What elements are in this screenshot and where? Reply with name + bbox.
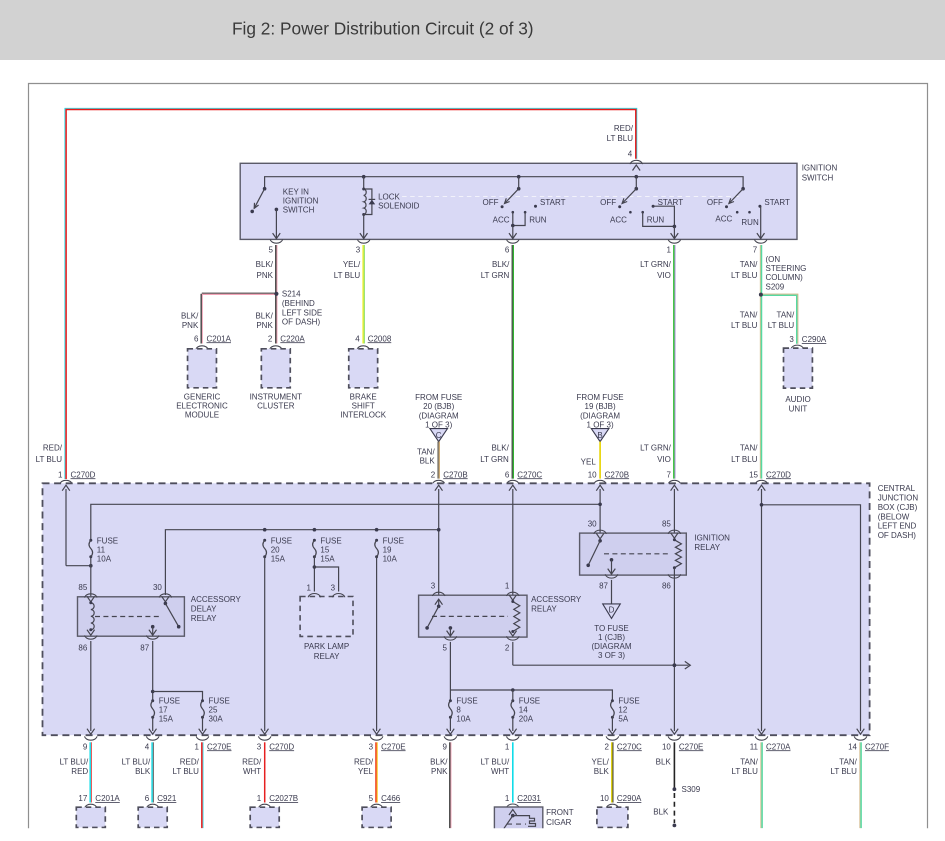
svg-text:S309: S309 [682,785,701,794]
svg-text:LT BLU: LT BLU [334,271,361,280]
svg-text:C2027B: C2027B [269,794,298,803]
svg-text:C466: C466 [381,794,401,803]
svg-text:(DIAGRAM: (DIAGRAM [419,411,459,420]
svg-text:7: 7 [666,470,671,479]
svg-text:7: 7 [753,246,758,255]
svg-text:2: 2 [268,334,273,343]
svg-text:3: 3 [369,742,374,751]
svg-text:15A: 15A [159,715,174,724]
svg-text:C270D: C270D [766,470,791,479]
svg-text:FUSE: FUSE [456,697,477,706]
svg-text:START: START [540,198,566,207]
svg-text:RED/: RED/ [614,124,634,133]
svg-text:IGNITION: IGNITION [802,163,838,172]
svg-text:ELECTRONIC: ELECTRONIC [176,401,228,410]
svg-text:3: 3 [257,742,262,751]
svg-text:3: 3 [331,583,336,592]
svg-text:1: 1 [666,246,671,255]
svg-text:BLK: BLK [653,808,669,817]
svg-text:12: 12 [618,706,627,715]
svg-text:IGNITION: IGNITION [694,533,730,542]
svg-text:4: 4 [145,742,150,751]
svg-text:1: 1 [306,583,311,592]
svg-text:17: 17 [78,794,87,803]
svg-text:FUSE: FUSE [519,697,540,706]
svg-text:5: 5 [369,794,374,803]
svg-text:FROM FUSE: FROM FUSE [415,393,462,402]
svg-text:3: 3 [789,335,794,344]
svg-text:TAN/: TAN/ [740,260,758,269]
svg-text:LT BLU/: LT BLU/ [481,757,510,766]
svg-text:SWITCH: SWITCH [283,205,315,214]
svg-text:30: 30 [153,583,162,592]
svg-text:5: 5 [442,643,447,652]
svg-text:14: 14 [848,742,857,751]
svg-text:85: 85 [78,583,87,592]
svg-text:LT GRN: LT GRN [481,271,510,280]
svg-text:10: 10 [588,470,597,479]
svg-text:C270E: C270E [381,742,405,751]
svg-text:87: 87 [599,582,608,591]
svg-text:2: 2 [431,470,436,479]
svg-text:TAN/: TAN/ [740,757,758,766]
svg-text:SHIFT: SHIFT [352,401,375,410]
svg-text:C270D: C270D [71,470,96,479]
svg-text:4: 4 [355,334,360,343]
svg-text:INTERLOCK: INTERLOCK [340,410,386,419]
svg-text:1: 1 [505,742,510,751]
svg-text:TAN/: TAN/ [417,448,435,457]
svg-text:LT BLU: LT BLU [36,455,63,464]
svg-text:BLK/: BLK/ [181,312,199,321]
svg-text:INSTRUMENT: INSTRUMENT [250,393,303,402]
svg-text:C290A: C290A [617,794,642,803]
svg-text:LOCK: LOCK [378,192,400,201]
svg-text:10A: 10A [383,554,398,563]
svg-text:PARK LAMP: PARK LAMP [304,642,349,651]
svg-text:YEL/: YEL/ [343,260,361,269]
svg-text:AUDIO: AUDIO [785,395,810,404]
svg-text:FUSE: FUSE [618,697,639,706]
svg-text:YEL: YEL [581,457,597,466]
svg-text:B: B [597,431,602,440]
svg-text:3 OF 3): 3 OF 3) [598,651,625,660]
svg-text:6: 6 [194,334,199,343]
svg-text:1: 1 [505,582,510,591]
svg-text:10: 10 [662,742,671,751]
svg-text:Fig 2: Power Distribution Circ: Fig 2: Power Distribution Circuit (2 of … [232,19,534,39]
svg-text:YEL/: YEL/ [592,757,610,766]
svg-text:RED/: RED/ [242,757,262,766]
svg-text:STEERING: STEERING [766,264,807,273]
svg-text:(DIAGRAM: (DIAGRAM [592,642,632,651]
svg-text:15: 15 [749,470,758,479]
svg-text:RELAY: RELAY [694,543,720,552]
svg-text:YEL: YEL [358,767,374,776]
svg-text:LT GRN/: LT GRN/ [640,444,672,453]
svg-text:JUNCTION: JUNCTION [878,494,919,503]
svg-text:1 (CJB): 1 (CJB) [598,633,625,642]
svg-text:FUSE: FUSE [159,697,180,706]
svg-text:TAN/: TAN/ [839,757,857,766]
svg-text:BLK: BLK [656,757,672,766]
svg-text:BLK: BLK [594,767,610,776]
svg-text:C270E: C270E [207,742,231,751]
svg-text:C201A: C201A [207,334,232,343]
svg-text:SOLENOID: SOLENOID [378,201,420,210]
svg-text:MODULE: MODULE [185,410,219,419]
svg-text:FUSE: FUSE [271,536,292,545]
svg-text:20: 20 [271,545,280,554]
svg-text:C270E: C270E [679,742,703,751]
svg-text:C2031: C2031 [517,794,541,803]
svg-text:6: 6 [505,246,510,255]
svg-text:(BELOW: (BELOW [878,512,910,521]
svg-text:LT BLU: LT BLU [731,271,758,280]
svg-text:C201A: C201A [95,794,120,803]
svg-text:S209: S209 [766,282,785,291]
svg-text:BLK/: BLK/ [491,444,509,453]
svg-text:RED/: RED/ [354,757,374,766]
svg-text:BLK/: BLK/ [256,260,274,269]
svg-text:3: 3 [356,246,361,255]
svg-text:BRAKE: BRAKE [350,393,377,402]
svg-text:RUN: RUN [529,215,547,224]
svg-text:C270C: C270C [617,742,642,751]
svg-text:PNK: PNK [257,271,274,280]
svg-text:8: 8 [456,706,461,715]
svg-text:LT BLU: LT BLU [831,767,858,776]
svg-text:FUSE: FUSE [209,697,230,706]
svg-text:1: 1 [195,742,200,751]
svg-text:LT BLU: LT BLU [173,767,200,776]
svg-text:LT BLU/: LT BLU/ [60,757,89,766]
svg-text:15: 15 [320,545,329,554]
svg-text:FUSE: FUSE [383,536,404,545]
svg-text:WHT: WHT [243,767,261,776]
svg-text:LT GRN: LT GRN [480,455,509,464]
svg-text:17: 17 [159,706,168,715]
svg-text:RELAY: RELAY [191,614,217,623]
svg-text:SWITCH: SWITCH [802,173,834,182]
svg-text:LIGHTER: LIGHTER [546,828,581,837]
svg-text:OFF: OFF [707,198,723,207]
svg-text:TAN/: TAN/ [777,311,795,320]
svg-text:(ON: (ON [766,255,781,264]
svg-text:TAN/: TAN/ [740,444,758,453]
svg-text:CENTRAL: CENTRAL [878,484,916,493]
svg-text:6: 6 [145,794,150,803]
svg-text:9: 9 [442,742,447,751]
svg-text:19 (BJB): 19 (BJB) [585,402,616,411]
svg-text:85: 85 [662,519,671,528]
svg-text:19: 19 [383,545,392,554]
svg-text:BOX (CJB): BOX (CJB) [878,503,918,512]
svg-text:TAN/: TAN/ [740,311,758,320]
svg-text:C270C: C270C [517,470,542,479]
svg-text:C270D: C270D [269,742,294,751]
svg-text:2: 2 [604,742,609,751]
svg-text:LT BLU: LT BLU [607,134,634,143]
svg-text:9: 9 [83,742,88,751]
svg-text:LT BLU/: LT BLU/ [122,757,151,766]
svg-text:(DIAGRAM: (DIAGRAM [580,411,620,420]
svg-text:LT BLU: LT BLU [732,767,759,776]
svg-text:10A: 10A [97,554,112,563]
svg-text:1: 1 [257,794,262,803]
svg-text:5: 5 [268,246,273,255]
svg-text:OFF: OFF [483,198,499,207]
svg-text:1: 1 [58,470,63,479]
svg-text:ACC: ACC [493,215,510,224]
svg-text:VIO: VIO [657,271,671,280]
svg-text:C: C [436,431,442,440]
svg-text:RED/: RED/ [43,444,63,453]
svg-text:PNK: PNK [182,321,199,330]
svg-text:86: 86 [662,582,671,591]
svg-text:UNIT: UNIT [789,404,808,413]
svg-text:BLK/: BLK/ [430,757,448,766]
svg-text:C270B: C270B [443,470,467,479]
svg-text:11: 11 [97,545,106,554]
svg-text:LT BLU: LT BLU [731,321,758,330]
svg-text:BLK/: BLK/ [255,312,273,321]
svg-text:3: 3 [431,582,436,591]
svg-text:CLUSTER: CLUSTER [257,401,295,410]
svg-text:RED: RED [71,767,88,776]
svg-text:FUSE: FUSE [97,536,118,545]
svg-text:BLK/: BLK/ [492,260,510,269]
svg-text:OF DASH): OF DASH) [282,318,321,327]
svg-text:BLK: BLK [135,767,151,776]
svg-text:RED/: RED/ [180,757,200,766]
svg-text:6: 6 [505,470,510,479]
svg-text:30: 30 [588,519,597,528]
svg-text:PNK: PNK [256,321,273,330]
svg-text:KEY IN: KEY IN [283,187,309,196]
svg-text:CIGAR: CIGAR [546,818,572,827]
svg-text:FROM FUSE: FROM FUSE [577,393,624,402]
svg-text:C270B: C270B [605,470,629,479]
svg-text:VIO: VIO [657,455,671,464]
svg-text:GENERIC: GENERIC [184,393,221,402]
svg-text:RELAY: RELAY [531,605,557,614]
svg-text:START: START [764,198,790,207]
svg-text:TO FUSE: TO FUSE [594,624,629,633]
svg-text:RUN: RUN [647,215,665,224]
svg-text:ACCESSORY: ACCESSORY [531,595,582,604]
svg-text:C921: C921 [157,794,177,803]
svg-text:D: D [609,605,615,614]
svg-text:LT GRN/: LT GRN/ [640,260,672,269]
svg-text:15A: 15A [320,554,335,563]
svg-text:C290A: C290A [802,335,827,344]
svg-text:WHT: WHT [491,767,509,776]
svg-text:C270F: C270F [865,742,889,751]
svg-text:LEFT END: LEFT END [878,522,917,531]
svg-text:5A: 5A [618,715,628,724]
svg-text:2: 2 [505,643,510,652]
svg-text:LT BLU: LT BLU [731,455,758,464]
svg-text:LEFT SIDE: LEFT SIDE [282,308,322,317]
svg-text:OFF: OFF [600,198,616,207]
svg-text:FUSE: FUSE [320,536,341,545]
svg-text:RUN: RUN [741,218,759,227]
svg-text:S214: S214 [282,290,301,299]
svg-text:RELAY: RELAY [314,652,340,661]
svg-text:15A: 15A [271,554,286,563]
svg-text:PNK: PNK [431,767,448,776]
svg-text:14: 14 [519,706,528,715]
svg-text:BLK: BLK [420,457,436,466]
svg-text:25: 25 [209,706,218,715]
svg-text:20A: 20A [519,715,534,724]
svg-text:10: 10 [600,794,609,803]
svg-text:IGNITION: IGNITION [283,196,319,205]
svg-text:LT BLU: LT BLU [768,321,795,330]
svg-text:10A: 10A [456,715,471,724]
svg-text:(BEHIND: (BEHIND [282,299,315,308]
svg-text:FRONT: FRONT [546,808,574,817]
svg-text:C270A: C270A [766,742,791,751]
svg-text:87: 87 [140,643,149,652]
svg-text:C220A: C220A [280,334,305,343]
svg-text:86: 86 [78,643,87,652]
svg-text:ACC: ACC [610,215,627,224]
svg-text:30A: 30A [209,715,224,724]
svg-text:DELAY: DELAY [191,604,217,613]
svg-text:20 (BJB): 20 (BJB) [423,402,454,411]
svg-text:OF DASH): OF DASH) [878,531,917,540]
svg-text:COLUMN): COLUMN) [766,273,804,282]
svg-text:ACCESSORY: ACCESSORY [191,595,242,604]
svg-text:1: 1 [505,794,510,803]
svg-text:11: 11 [750,742,759,751]
svg-text:C2008: C2008 [368,334,392,343]
svg-text:ACC: ACC [715,214,732,223]
svg-text:4: 4 [628,150,633,159]
